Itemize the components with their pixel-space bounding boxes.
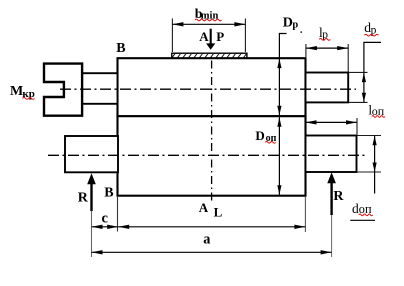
svg-text:D: D: [255, 128, 264, 143]
red squiggle under min: [195, 19, 221, 21]
l_op right extension line: [356, 118, 358, 136]
svg-text:М: М: [10, 84, 23, 99]
b_min right extension line: [244, 19, 246, 53]
d_p bottom extension line: [348, 101, 367, 103]
svg-text:R: R: [78, 190, 89, 205]
left neck of work roll: [81, 73, 118, 104]
l_p dimension line: [306, 47, 348, 49]
upper centerline (work roll axis): [60, 88, 356, 90]
svg-text:p: p: [292, 19, 298, 30]
reaction R left arrow: [90, 184, 92, 212]
red squiggle under kr: [23, 98, 35, 100]
red squiggle under d_p: [364, 34, 378, 36]
red squiggle under l_p: [319, 39, 330, 41]
svg-text:a: a: [203, 231, 210, 247]
l_p left extension line: [305, 44, 307, 59]
svg-text:L: L: [214, 205, 223, 220]
a dimension line: [92, 251, 332, 253]
section line A-A (vertical dashed): [211, 61, 213, 205]
red squiggle under l_op: [372, 116, 385, 118]
lower left journal: [65, 136, 118, 172]
b_min left extension line: [171, 19, 173, 53]
D_op dimension line: [278, 117, 280, 195]
d_op dimension line: [374, 136, 376, 194]
svg-text:B: B: [104, 185, 113, 200]
d_op top extension line: [357, 135, 382, 137]
contact strip (hatched): [172, 53, 247, 58]
lower right journal: [306, 136, 357, 173]
svg-text:R: R: [333, 189, 344, 204]
L dimension line: [118, 226, 305, 228]
d_op bottom extension line: [357, 171, 382, 173]
force P arrow: [210, 29, 212, 45]
upper right journal (d_p neck): [306, 73, 349, 103]
barrel left edge extension: [117, 197, 119, 232]
backup roll barrel (lower body): [118, 116, 306, 196]
b_min dimension line: [172, 23, 245, 25]
l_op dimension line: [306, 121, 358, 123]
red squiggle under D_op: [265, 142, 275, 144]
c dimension line: [92, 226, 119, 228]
svg-text:c: c: [102, 210, 109, 226]
svg-text:A: A: [199, 29, 209, 44]
d_p leader tick: [364, 42, 381, 72]
svg-text:P: P: [216, 29, 224, 44]
l_p right extension line: [347, 44, 349, 72]
d_p dimension line: [363, 72, 365, 102]
reaction R right arrow: [330, 183, 332, 216]
barrel right edge extension: [304, 197, 306, 232]
work roll barrel (upper body): [118, 58, 306, 116]
d_p top extension line: [348, 71, 367, 73]
D_p leader tick: [279, 34, 286, 58]
D_p dimension line: [278, 58, 280, 116]
svg-text:A: A: [199, 200, 209, 215]
svg-text:B: B: [116, 41, 125, 56]
lower centerline (backup roll axis): [48, 154, 367, 156]
wobbler drive end: [44, 64, 82, 116]
